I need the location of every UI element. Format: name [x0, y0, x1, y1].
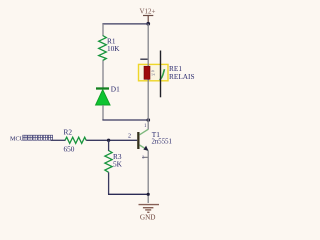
svg-text:2: 2: [128, 134, 131, 140]
wire R1 to D1: [102, 61, 104, 88]
svg-text:R2: R2: [64, 127, 73, 136]
svg-text:5K: 5K: [113, 160, 123, 169]
transistor T1 base bar: [137, 132, 139, 149]
svg-text:2n5551: 2n5551: [152, 139, 172, 146]
junction dot ground node: [147, 193, 150, 196]
resistor R3: [105, 151, 112, 173]
junction dot top: [146, 22, 150, 26]
wire emitter vertical: [147, 151, 149, 204]
resistor R2: [65, 137, 86, 143]
svg-text:GND: GND: [140, 213, 156, 221]
transistor T1 collector stroke: [140, 129, 149, 135]
wire R3 top stub: [108, 140, 110, 151]
svg-text:MCU: MCU: [10, 136, 25, 143]
svg-text:V12+: V12+: [139, 7, 155, 15]
svg-text:1: 1: [144, 124, 147, 129]
transistor T1 emitter arrow: [143, 146, 148, 151]
wire top horizontal: [102, 23, 148, 25]
wire MCU to R2: [51, 139, 66, 141]
relay RE1 body box: [139, 64, 169, 80]
relay switch arm (green): [160, 69, 165, 80]
svg-text:RELAIS: RELAIS: [169, 72, 195, 81]
svg-text:D1: D1: [111, 84, 120, 93]
wire D1 to corner: [102, 105, 104, 120]
wire main branch vertical: [147, 24, 149, 130]
wire R3 bottom: [108, 172, 110, 194]
svg-text:10K: 10K: [107, 44, 120, 53]
MCU input label (CJK simulated): [10, 135, 53, 142]
transistor T1 emitter stroke: [140, 145, 149, 151]
relay contact line: [160, 51, 162, 98]
wire bottom horizontal: [108, 193, 148, 195]
svg-text:650: 650: [64, 144, 75, 153]
relay RE1 coil: [144, 66, 150, 79]
relay coil pin tick: [140, 58, 148, 60]
diode D1: [96, 89, 110, 106]
ground symbol: [139, 205, 160, 213]
junction dot base node: [107, 139, 110, 142]
power symbol V12+ bar: [143, 16, 153, 24]
resistor R1: [99, 36, 107, 61]
wire left branch upper: [102, 24, 104, 36]
wire R2 to base: [86, 139, 137, 141]
svg-text:3: 3: [142, 155, 144, 160]
junction dot collector node: [147, 118, 151, 122]
svg-text:54: 54: [151, 72, 155, 76]
pin number 3 dash: [142, 156, 148, 158]
wire corner to main branch: [102, 119, 148, 121]
